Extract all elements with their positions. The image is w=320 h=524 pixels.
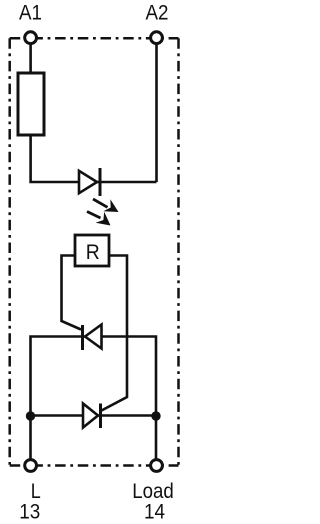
svg-text:13: 13 xyxy=(19,501,40,524)
svg-text:R: R xyxy=(86,241,100,264)
svg-text:14: 14 xyxy=(144,501,165,524)
svg-text:A2: A2 xyxy=(146,1,169,24)
svg-text:A1: A1 xyxy=(19,1,42,24)
